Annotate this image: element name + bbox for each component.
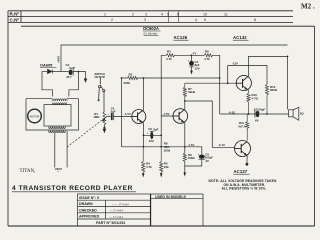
svg-text:4 TRANSISTOR RECORD PLAYER: 4 TRANSISTOR RECORD PLAYER bbox=[12, 185, 133, 192]
svg-text:USED IN MODELS: USED IN MODELS bbox=[155, 195, 187, 199]
svg-text:100Ω: 100Ω bbox=[188, 156, 196, 160]
svg-text:OA605: OA605 bbox=[40, 63, 53, 68]
revision bar tick marks bbox=[169, 11, 179, 23]
AC132 bias feed bbox=[227, 66, 229, 84]
ground arrow below R8 bbox=[160, 173, 163, 177]
svg-text:DRAWN: DRAWN bbox=[79, 202, 93, 206]
svg-text:OC602A: OC602A bbox=[143, 26, 159, 31]
svg-text:1: 1 bbox=[104, 12, 106, 16]
wire HT row bbox=[42, 71, 47, 73]
T1 emitter wire bbox=[143, 123, 145, 147]
svg-text:AC127: AC127 bbox=[234, 169, 248, 174]
svg-text:M2 .: M2 . bbox=[301, 3, 315, 11]
wire T2 collector top row to AC132 base bbox=[185, 82, 237, 84]
svg-text:3: 3 bbox=[145, 12, 147, 16]
svg-text:5: 5 bbox=[204, 18, 206, 22]
output node wire bbox=[220, 113, 289, 115]
junction dot bias row bbox=[191, 54, 193, 56]
resistor R12 820 bbox=[265, 84, 268, 114]
T2 emitter arrow bbox=[181, 120, 183, 122]
svg-text:— 17-4-64: — 17-4-64 bbox=[108, 215, 123, 219]
svg-text:1MΩ: 1MΩ bbox=[93, 115, 100, 119]
switch node dot bbox=[98, 99, 100, 101]
sheet right border bbox=[314, 26, 316, 226]
resistor R3 4.7k bbox=[166, 54, 174, 57]
pot bottom node dot bbox=[103, 127, 105, 129]
svg-text:8µF: 8µF bbox=[153, 128, 158, 132]
volume control R1 1M bbox=[103, 112, 106, 128]
resistor R4 4.7k bbox=[142, 147, 145, 174]
T1 emitter arrow bbox=[139, 120, 141, 122]
note text bbox=[209, 179, 277, 191]
top supply rail bbox=[61, 45, 288, 72]
svg-text:MOTOR: MOTOR bbox=[30, 114, 40, 118]
svg-text:APPROVED: APPROVED bbox=[79, 215, 100, 219]
wire -12V row to R12 bbox=[228, 66, 267, 85]
svg-text:+45V: +45V bbox=[57, 56, 61, 63]
transistor AC127 bbox=[235, 141, 251, 157]
transistor T1 bbox=[132, 110, 146, 124]
svg-text:R2: R2 bbox=[129, 72, 133, 76]
coupling wire T1 to T2 base bbox=[161, 55, 173, 147]
svg-text:2µF: 2µF bbox=[111, 109, 116, 113]
sheet bottom border bbox=[8, 225, 315, 227]
resistor R10 emitter bbox=[247, 90, 250, 114]
svg-text:11: 11 bbox=[224, 12, 228, 16]
signatures bbox=[108, 202, 129, 219]
svg-text:~: ~ bbox=[57, 170, 59, 174]
emitter network loop bbox=[185, 147, 202, 169]
wire collector row bbox=[122, 77, 220, 79]
resistor R9 100 bbox=[183, 153, 186, 162]
svg-text:4·7Ω: 4·7Ω bbox=[252, 96, 259, 100]
svg-text:C.Nº: C.Nº bbox=[10, 17, 20, 22]
svg-text:-0·1V: -0·1V bbox=[218, 143, 225, 147]
svg-text:4: 4 bbox=[195, 18, 197, 22]
svg-text:-1·5V: -1·5V bbox=[188, 143, 195, 147]
capacitor C4 8uF bbox=[189, 55, 200, 74]
svg-text:22k: 22k bbox=[164, 165, 169, 169]
svg-text:-1·5V: -1·5V bbox=[124, 112, 131, 116]
svg-text:6: 6 bbox=[177, 12, 179, 16]
svg-text:50µF: 50µF bbox=[259, 108, 266, 112]
svg-text:AC132: AC132 bbox=[233, 35, 247, 40]
speaker bbox=[288, 56, 299, 120]
AC127 emitter to ground dot bbox=[246, 156, 248, 164]
svg-text:12V: 12V bbox=[149, 139, 154, 143]
svg-text:R6: R6 bbox=[205, 50, 209, 54]
svg-text:C5: C5 bbox=[148, 127, 152, 131]
svg-text:220k: 220k bbox=[164, 148, 171, 152]
motor M1 bbox=[28, 109, 42, 123]
ground arrow T2 emitter bbox=[184, 169, 186, 173]
svg-text:4·7k: 4·7k bbox=[166, 57, 172, 61]
transformer bottom winding bbox=[49, 127, 66, 133]
capacitor C3 2uF bbox=[111, 107, 116, 121]
T1 collector wire bbox=[143, 78, 145, 110]
wire pot to C3 bbox=[106, 116, 111, 118]
svg-text:2: 2 bbox=[132, 12, 134, 16]
transistor AC132 bbox=[236, 75, 251, 90]
wire cap to ground stub bbox=[73, 72, 86, 78]
capacitor C2 bbox=[66, 63, 75, 79]
T2 collector/emitter verticals bbox=[184, 101, 186, 147]
main frame top line bbox=[21, 25, 315, 27]
svg-text:4·7k: 4·7k bbox=[204, 57, 210, 61]
AC132 emitter arrow bbox=[244, 87, 246, 89]
ground arrow below R4 bbox=[142, 173, 145, 177]
svg-text:ALL RESISTORS ½ W 10%.: ALL RESISTORS ½ W 10%. bbox=[222, 187, 267, 191]
svg-text:-1·5V: -1·5V bbox=[163, 112, 170, 116]
revision bar lines bbox=[8, 11, 293, 23]
resistor R11 bbox=[246, 114, 249, 141]
svg-text:45·7: 45·7 bbox=[66, 75, 72, 79]
mains leads bbox=[55, 131, 67, 168]
wire T2 collector to AC127 base bbox=[185, 101, 235, 147]
svg-text:2: 2 bbox=[111, 18, 113, 22]
svg-text:10: 10 bbox=[203, 12, 207, 16]
R6 drop to output node bbox=[219, 55, 221, 114]
svg-text:N.F.A: N.F.A bbox=[239, 124, 247, 128]
resistor R5 22k bbox=[160, 147, 163, 174]
svg-text:6: 6 bbox=[254, 18, 256, 22]
svg-text:AC126: AC126 bbox=[174, 35, 188, 40]
svg-text:— 17-4-64: — 17-4-64 bbox=[108, 209, 123, 213]
motor box bbox=[26, 99, 79, 130]
svg-text:-7V: -7V bbox=[192, 52, 196, 56]
capacitor C6 100uF bbox=[199, 152, 214, 162]
capacitor C8 50uF bbox=[254, 108, 265, 123]
issue table bbox=[78, 194, 204, 226]
junction node after C2 bbox=[78, 71, 80, 73]
wire C3 to T1 base bbox=[113, 116, 131, 118]
svg-text:12V: 12V bbox=[195, 66, 200, 70]
svg-text:R3: R3 bbox=[167, 50, 171, 54]
transformer primary connection outline bbox=[42, 72, 78, 97]
ground arrow below pot bbox=[103, 128, 106, 133]
resistor R6 4.7k bbox=[204, 54, 212, 57]
svg-text:ON MTR: ON MTR bbox=[95, 75, 105, 79]
svg-text:CHECKED: CHECKED bbox=[79, 209, 97, 213]
svg-text:R.Nº: R.Nº bbox=[10, 12, 20, 17]
AC132 collector wire to rail bbox=[249, 56, 288, 76]
bias row wire bbox=[161, 54, 220, 56]
resistor R7 39k bbox=[183, 83, 186, 101]
revision bar label box divider bbox=[20, 11, 22, 23]
svg-text:4·7k: 4·7k bbox=[146, 165, 152, 169]
mechanical link (dashed) bbox=[67, 121, 101, 148]
svg-text:ISSUE Nº: 0: ISSUE Nº: 0 bbox=[79, 196, 99, 200]
junction dots bbox=[121, 77, 123, 79]
AC127 emitter arrow bbox=[244, 153, 247, 156]
switch S1 bbox=[99, 78, 105, 112]
diode OA605 bbox=[48, 69, 53, 74]
svg-text:3: 3 bbox=[144, 18, 146, 22]
transformer core box bbox=[44, 105, 71, 127]
svg-text:5: 5 bbox=[167, 12, 169, 16]
capacitor C5 8uF bbox=[144, 127, 162, 143]
transistor T2 AC126 bbox=[173, 109, 188, 124]
svg-text:-12V: -12V bbox=[232, 62, 238, 66]
ground arrow (supply) bbox=[84, 77, 87, 82]
polarity marks bbox=[74, 60, 256, 156]
svg-text:TITAN,: TITAN, bbox=[20, 169, 36, 174]
wiper arrow bbox=[101, 118, 105, 121]
wire diode to cap bbox=[53, 71, 69, 73]
sheet left border bbox=[7, 11, 9, 226]
revision row numbers bbox=[104, 12, 256, 22]
svg-text:820Ω: 820Ω bbox=[270, 88, 278, 92]
svg-text:PART Nº 5/01/251: PART Nº 5/01/251 bbox=[96, 221, 125, 225]
svg-text:220k: 220k bbox=[124, 81, 131, 85]
svg-text:Or Similar: Or Similar bbox=[144, 32, 158, 36]
supply dropper rail bbox=[122, 78, 185, 147]
svg-text:6V: 6V bbox=[255, 119, 259, 123]
resistor R2 220k bbox=[127, 76, 137, 79]
svg-text:39kΩ: 39kΩ bbox=[188, 90, 196, 94]
transformer top winding bbox=[52, 99, 67, 105]
svg-text:4V: 4V bbox=[205, 159, 209, 163]
svg-text:4: 4 bbox=[161, 12, 163, 16]
svg-text:—— 17-4-64: —— 17-4-64 bbox=[111, 202, 129, 206]
